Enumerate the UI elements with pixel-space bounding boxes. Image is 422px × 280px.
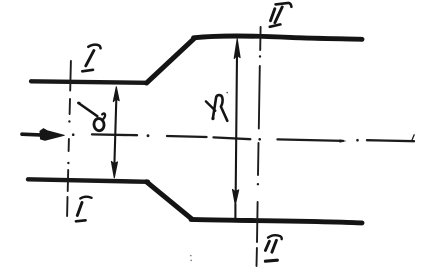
- wire top-right pipe wall: [194, 36, 363, 39]
- section line I-I (vertical dash-dot): [67, 61, 71, 216]
- label d (small diameter, handwritten with leader stroke): [78, 102, 105, 132]
- label D (large diameter, handwritten): [206, 95, 227, 121]
- speck (scan noise near bottom II): [190, 255, 192, 262]
- wire bottom-left pipe wall: [28, 179, 148, 182]
- label I (bottom section marker): [76, 197, 92, 222]
- label II (bottom section marker): [265, 235, 281, 261]
- centerline (horizontal dash-dot axis): [72, 133, 414, 142]
- wire bottom-right pipe wall: [191, 219, 362, 223]
- section line II-II (vertical dash-dot): [257, 27, 262, 266]
- speck (scan noise near D label): [226, 92, 228, 94]
- wire top diffuser diagonal wall: [147, 38, 195, 83]
- label I (top section marker): [82, 45, 100, 72]
- label II (top section marker): [270, 3, 292, 27]
- flow arrow (inlet): [22, 129, 64, 141]
- dimension line d (vertical with two arrowheads): [111, 87, 119, 178]
- wire bottom diffuser diagonal wall: [147, 182, 193, 219]
- wire top-left pipe wall: [31, 81, 147, 83]
- dimension line D (vertical with two arrowheads): [233, 39, 241, 219]
